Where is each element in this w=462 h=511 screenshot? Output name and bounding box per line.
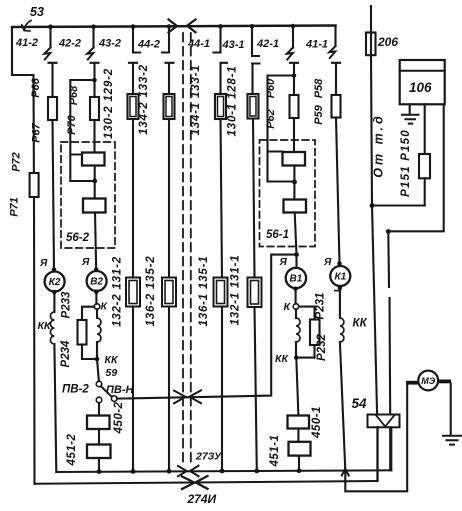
svg-text:Р234: Р234: [60, 340, 72, 367]
svg-text:Р70: Р70: [66, 114, 78, 134]
svg-text:132-2 131-2: 132-2 131-2: [112, 256, 124, 327]
svg-text:450-1: 450-1: [311, 406, 323, 439]
svg-text:27ЗУ: 27ЗУ: [195, 451, 222, 463]
svg-text:ПВ-2: ПВ-2: [62, 384, 89, 396]
svg-text:134-1 133-1: 134-1 133-1: [190, 65, 202, 136]
svg-text:206: 206: [377, 35, 398, 49]
svg-text:53: 53: [30, 5, 44, 19]
svg-text:450-2: 450-2: [113, 401, 125, 434]
svg-text:В1: В1: [290, 274, 303, 285]
svg-text:59: 59: [106, 367, 118, 379]
svg-text:КК: КК: [105, 354, 119, 366]
svg-text:К: К: [284, 301, 292, 313]
svg-text:Я: Я: [81, 257, 90, 268]
svg-text:КК: КК: [275, 353, 289, 365]
svg-text:42-2: 42-2: [58, 38, 81, 50]
svg-text:ПВ-Н: ПВ-Н: [106, 384, 135, 396]
svg-text:Р67: Р67: [31, 122, 43, 142]
svg-text:451-2: 451-2: [66, 433, 78, 466]
svg-text:К: К: [101, 301, 109, 313]
svg-text:КК: КК: [353, 318, 368, 330]
svg-text:В2: В2: [90, 277, 103, 288]
svg-text:43-2: 43-2: [98, 38, 121, 50]
svg-text:56-1: 56-1: [266, 229, 289, 241]
svg-text:41-2: 41-2: [15, 37, 38, 49]
svg-text:Р60: Р60: [265, 78, 277, 98]
svg-text:274И: 274И: [187, 492, 217, 506]
svg-text:Р72: Р72: [11, 152, 23, 172]
svg-text:Я: Я: [323, 257, 332, 268]
svg-text:Р231: Р231: [315, 293, 327, 320]
svg-text:Я: Я: [279, 257, 288, 268]
svg-text:44-2: 44-2: [137, 39, 160, 51]
svg-text:Р62: Р62: [265, 109, 277, 129]
svg-text:44-1: 44-1: [187, 38, 210, 50]
svg-text:Я: Я: [39, 258, 48, 269]
svg-text:К2: К2: [49, 277, 61, 288]
svg-text:КК: КК: [38, 320, 52, 332]
svg-text:130-1 128-1: 130-1 128-1: [227, 66, 239, 137]
svg-text:136-2 135-2: 136-2 135-2: [145, 256, 157, 327]
svg-text:Р59: Р59: [313, 104, 325, 124]
svg-text:Р66: Р66: [30, 77, 42, 97]
svg-text:43-1: 43-1: [222, 39, 245, 51]
svg-text:56-2: 56-2: [66, 232, 90, 244]
svg-text:136-1 135-1: 136-1 135-1: [198, 256, 210, 327]
svg-text:451-1: 451-1: [269, 435, 281, 468]
svg-text:Р151 Р150: Р151 Р150: [400, 129, 412, 197]
svg-text:Р58: Р58: [313, 78, 325, 98]
svg-text:Р232: Р232: [316, 333, 328, 360]
svg-text:42-1: 42-1: [256, 38, 279, 50]
svg-text:54: 54: [352, 396, 368, 411]
svg-text:МЭ: МЭ: [421, 376, 435, 386]
svg-text:К1: К1: [334, 272, 346, 283]
svg-text:41-1: 41-1: [305, 39, 328, 51]
svg-text:Р71: Р71: [9, 197, 21, 217]
svg-text:132-1 131-1: 132-1 131-1: [230, 255, 242, 326]
svg-text:Р233: Р233: [61, 291, 73, 318]
svg-text:130-2 129-2: 130-2 129-2: [103, 68, 115, 139]
svg-text:Р68: Р68: [68, 85, 80, 105]
svg-text:От т.д: От т.д: [372, 113, 386, 177]
svg-text:134-2 133-2: 134-2 133-2: [138, 64, 150, 135]
svg-text:106: 106: [409, 80, 432, 95]
